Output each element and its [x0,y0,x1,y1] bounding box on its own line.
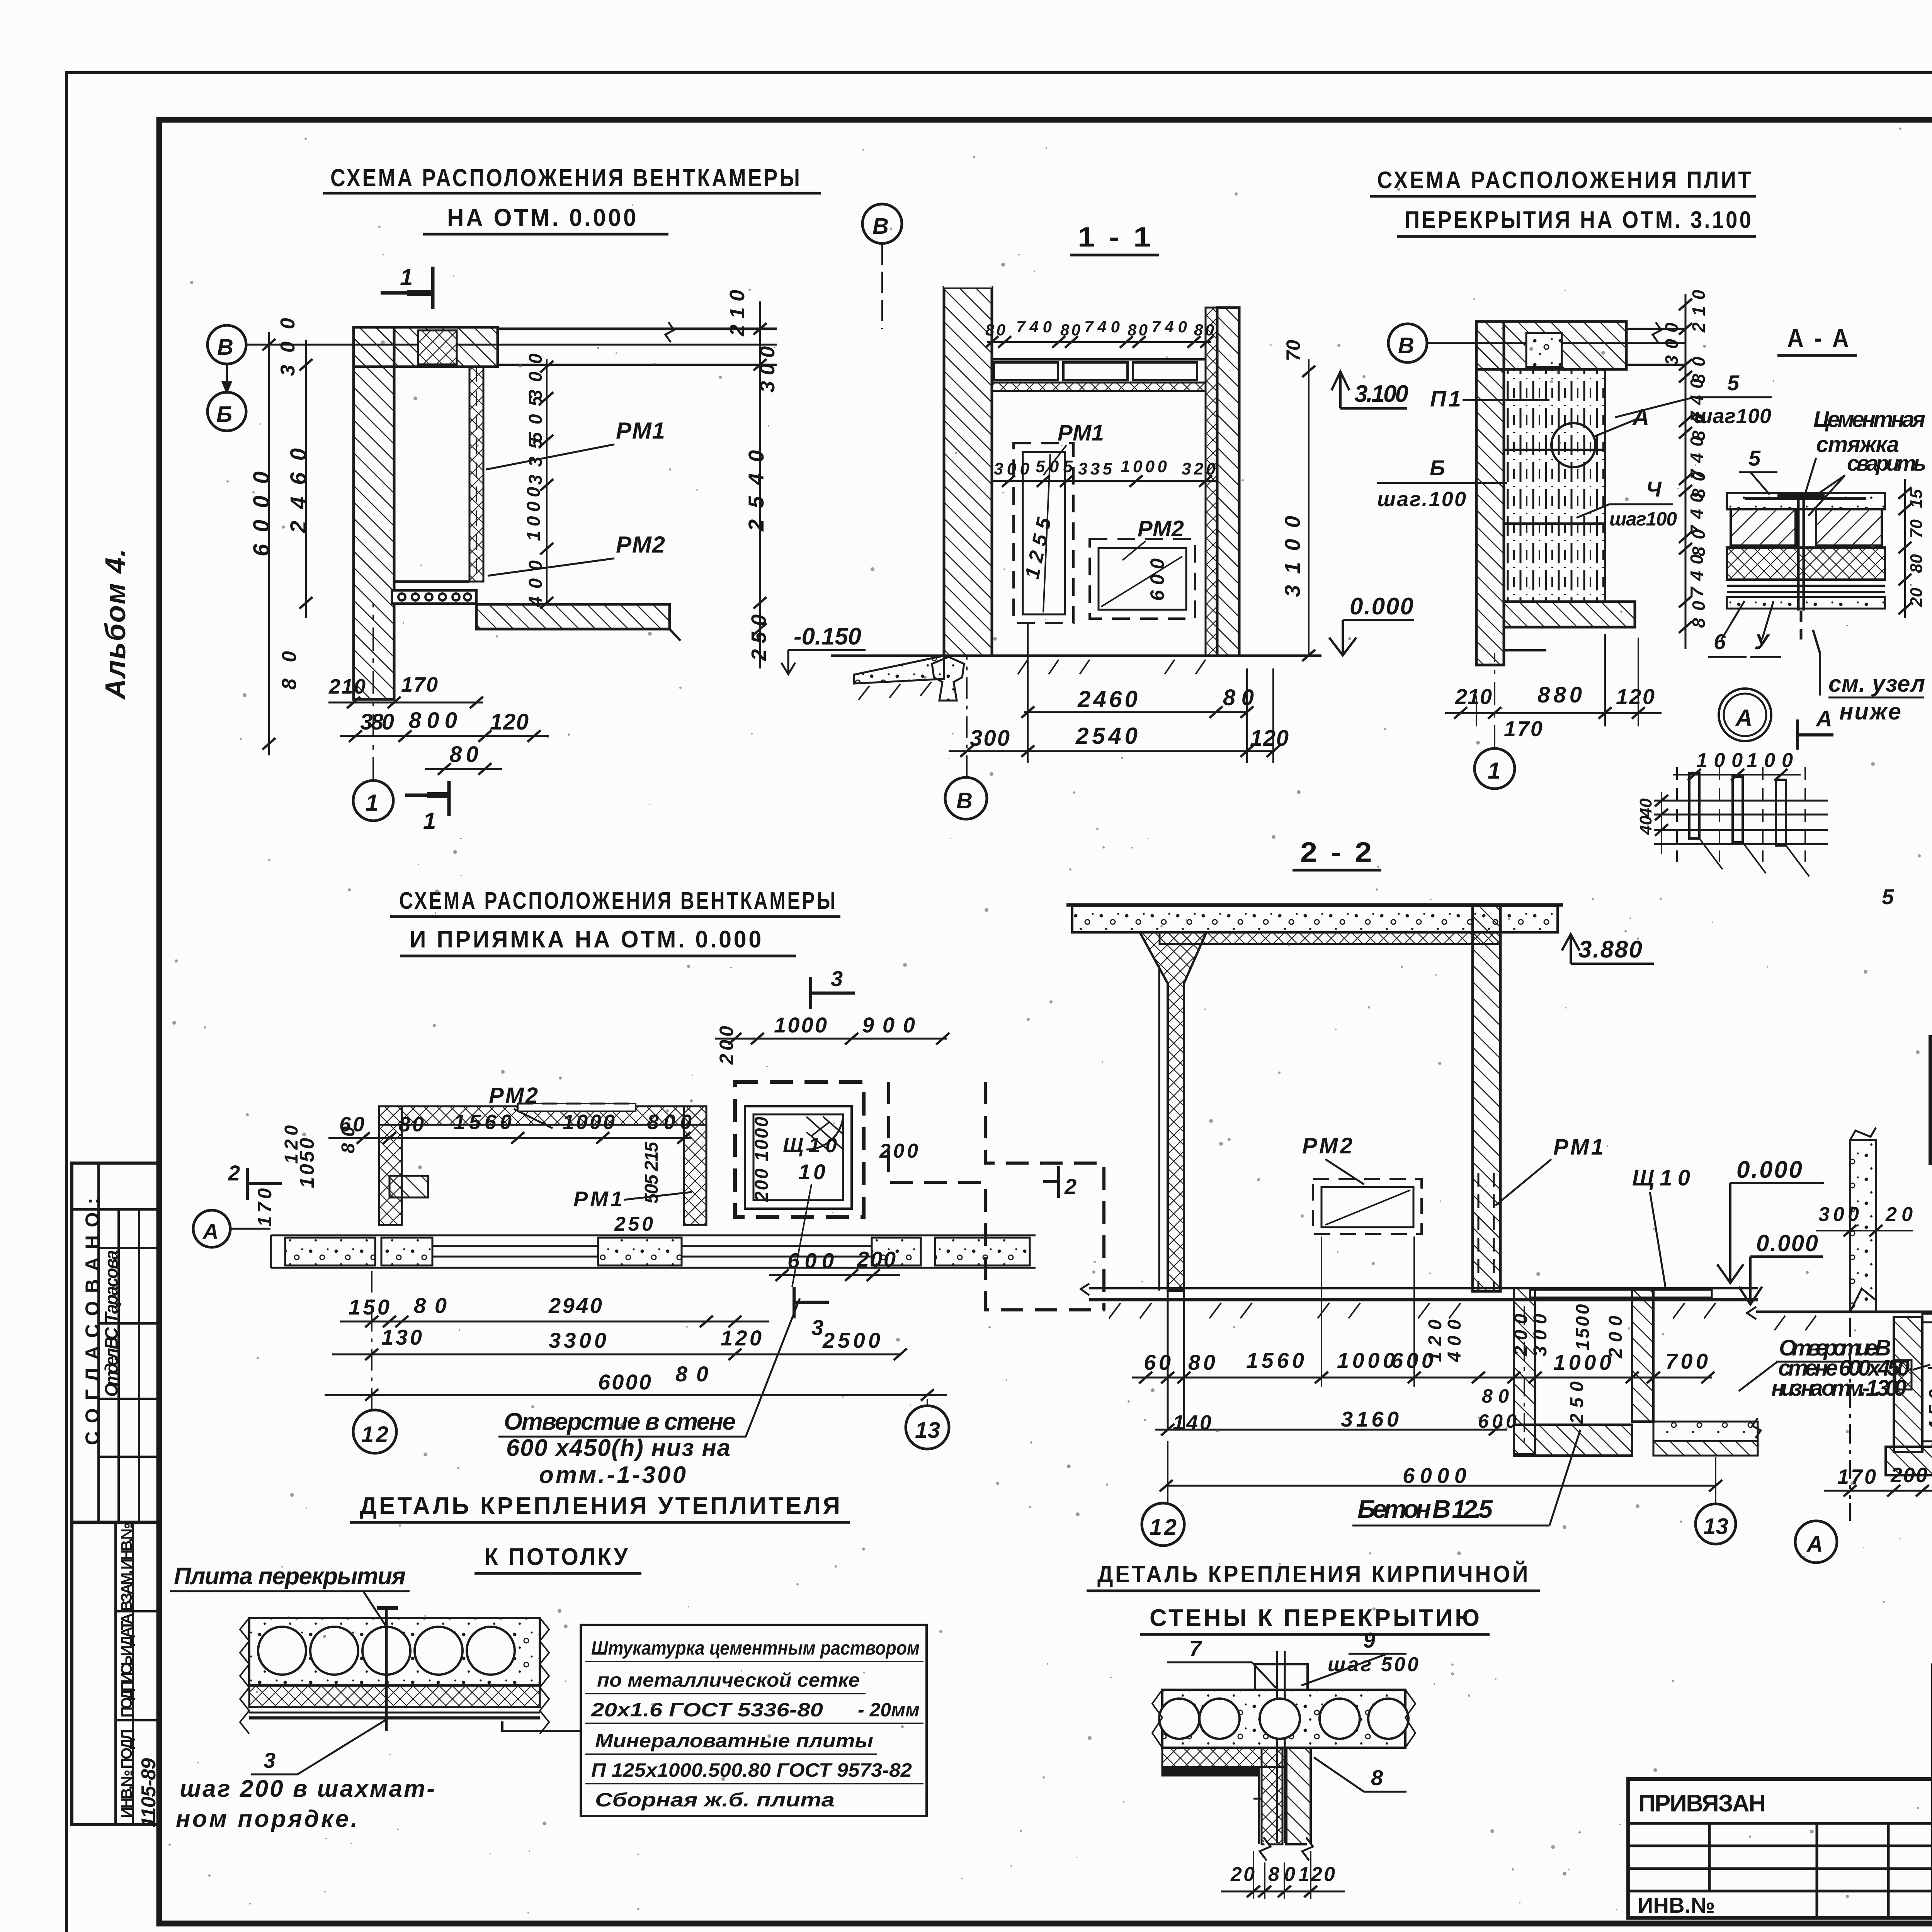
svg-text:ИНВ.№ ПОДЛ: ИНВ.№ ПОДЛ [118,1729,135,1818]
svg-text:А: А [1806,1532,1823,1557]
svg-text:А: А [1815,706,1832,731]
3-3 pos 11 mesh [1895,1360,1912,1389]
svg-text:600 х450(h) низ на: 600 х450(h) низ на [506,1435,730,1461]
svg-text:0.000: 0.000 [1736,1156,1802,1183]
svg-text:400: 400 [1444,1320,1465,1362]
plan3 right dim chain [1679,294,1692,649]
heading: schema ventkamery otm 0.000 [323,164,821,234]
svg-text:20: 20 [1907,588,1926,607]
svg-text:740: 740 [1151,318,1187,336]
svg-text:210: 210 [1455,684,1492,709]
plan2 foundation strip [271,1235,1036,1268]
svg-text:2: 2 [1064,1174,1077,1199]
plan3 top wall band [1476,321,1626,369]
svg-text:300: 300 [1662,323,1682,365]
svg-text:1 - 1: 1 - 1 [1078,222,1153,253]
svg-text:отм.-1-300: отм.-1-300 [539,1462,686,1488]
svg-text:15: 15 [1907,489,1926,508]
1-1 ground and floor [831,656,1321,701]
svg-text:низ на отм.-1.300: низ на отм.-1.300 [1771,1376,1906,1401]
3-3 ground and pit [1747,1307,1932,1475]
svg-text:шаг100: шаг100 [1609,508,1677,530]
svg-text:300: 300 [277,318,299,376]
svg-text:210: 210 [328,675,366,698]
2-2 floor lines [1081,1284,1758,1318]
heading: 1-1 [1070,222,1159,255]
plan2 top dims 200 1000 900 [715,1033,949,1044]
svg-text:70: 70 [1907,519,1926,538]
svg-text:100: 100 [1696,749,1743,772]
svg-text:300: 300 [756,346,779,393]
svg-text:0.000: 0.000 [1350,593,1413,620]
svg-text:Б: Б [1430,456,1445,480]
svg-text:380: 380 [360,709,394,735]
svg-text:700: 700 [1665,1349,1708,1373]
svg-text:ПОДПИСЬ И ДАТА: ПОДПИСЬ И ДАТА [118,1613,135,1718]
svg-text:ниже: ниже [1839,699,1901,724]
plan3 axis circle B [1388,324,1427,362]
section mark 1 top [381,267,433,309]
svg-text:ВЗАМ. ИНВ.№: ВЗАМ. ИНВ.№ [118,1522,135,1611]
svg-text:Плита перекрытия: Плита перекрытия [174,1563,406,1590]
title block left sub-block (privyazan) [1628,1779,1932,1918]
svg-text:-0.150: -0.150 [794,623,861,650]
svg-text:1105-89: 1105-89 [138,1758,160,1828]
svg-text:120: 120 [281,1125,302,1164]
node A drawing rails [1654,801,1828,844]
svg-text:40: 40 [1636,816,1655,835]
plan3 bottom band [1504,602,1635,627]
plan1 room floor line [392,582,476,604]
svg-text:1: 1 [1488,758,1500,784]
svg-text:ДЕТАЛЬ КРЕПЛЕНИЯ КИРПИЧНОЙ: ДЕТАЛЬ КРЕПЛЕНИЯ КИРПИЧНОЙ [1097,1561,1530,1588]
svg-text:шаг 500: шаг 500 [1328,1653,1418,1676]
svg-text:400: 400 [526,560,546,607]
svg-text:Цементная: Цементная [1813,407,1925,432]
potolok slab [240,1607,549,1734]
A-A right dim chain [1898,479,1912,618]
plan1 right dim chain [753,301,767,668]
1-1 mid dims 300 505 335 1000 320 [992,475,1217,487]
node A bars [1677,767,1809,876]
svg-text:210: 210 [1689,290,1709,333]
svg-text:по металлической сетке: по металлической сетке [597,1669,860,1691]
svg-text:800: 800 [647,1111,692,1134]
svg-text:СХЕМА РАСПОЛОЖЕНИЯ ВЕНТКАМЕРЫ: СХЕМА РАСПОЛОЖЕНИЯ ВЕНТКАМЕРЫ [399,888,837,914]
svg-text:сварить: сварить [1847,451,1926,475]
svg-text:К ПОТОЛКУ: К ПОТОЛКУ [485,1544,630,1570]
svg-text:В: В [1398,333,1414,358]
svg-text:120: 120 [1616,684,1655,709]
svg-text:Альбом 4.: Альбом 4. [99,549,131,700]
plan1 top right axis circle B [862,204,902,243]
2-2 PM2 window frame [1313,1179,1422,1234]
svg-text:740: 740 [1687,493,1707,535]
svg-text:А: А [1632,404,1649,430]
svg-text:13: 13 [1703,1514,1728,1539]
svg-text:Сборная ж.б. плита: Сборная ж.б. плита [595,1789,835,1811]
3-3 column [1850,1128,1876,1312]
potolok text block [502,1625,927,1816]
plan1 inner dim chain rotated [524,354,546,607]
kirpich insulation and wall below [1162,1748,1313,1861]
svg-text:335: 335 [1078,459,1112,478]
svg-text:0.000: 0.000 [1756,1230,1818,1256]
svg-text:3: 3 [831,966,843,991]
svg-text:150: 150 [349,1295,389,1319]
A-A slab layers [1727,493,1885,609]
plan2 pit plan [735,1082,864,1217]
svg-text:200: 200 [1511,1314,1531,1357]
svg-text:шаг.100: шаг.100 [1377,488,1466,511]
svg-text:450: 450 [1925,1389,1932,1432]
svg-text:900: 900 [862,1013,915,1037]
svg-text:Бетон В 12.5: Бетон В 12.5 [1357,1495,1493,1523]
svg-text:РМ1: РМ1 [616,418,665,444]
2-2 pit walls [1514,1288,1761,1456]
heading: detal krepleniya kirpichnoy steny [1087,1561,1540,1634]
2-2 PM1 dashed in wall [1478,1173,1494,1291]
svg-text:ПРИВЯЗАН: ПРИВЯЗАН [1638,1790,1766,1817]
plan1 bottom dims 380 800 120 / 80 [340,730,549,775]
svg-text:3.880: 3.880 [1578,936,1642,963]
svg-text:2: 2 [228,1161,240,1185]
svg-text:ДЕТАЛЬ КРЕПЛЕНИЯ УТЕПЛИТЕЛЯ: ДЕТАЛЬ КРЕПЛЕНИЯ УТЕПЛИТЕЛЯ [360,1493,842,1519]
svg-text:200: 200 [879,1140,918,1162]
svg-text:РМ1: РМ1 [1058,420,1104,446]
left margin rotated texts [82,1198,160,1828]
svg-text:13: 13 [915,1418,940,1443]
1-1 bottom axis circle B [945,777,987,819]
plan2 section mark 3 bottom [794,1287,829,1318]
svg-text:300: 300 [526,354,546,400]
svg-text:3: 3 [264,1748,276,1772]
svg-text:1: 1 [423,808,436,834]
svg-text:шаг 200 в шахмат-: шаг 200 в шахмат- [180,1776,435,1802]
plan1 bottom axis circle 1 [353,781,393,821]
plan3 bottom axis circle 1 [1475,748,1515,789]
plan2 dims row 60 80 1560 1000 800 [328,1132,692,1144]
svg-text:В: В [956,788,973,813]
svg-text:170: 170 [1837,1465,1876,1488]
plan1 top wall [354,322,777,367]
plan2 left marks [247,1168,282,1200]
kirpich anchor plate and pin [1255,1651,1308,1843]
svg-text:740: 740 [1687,554,1707,597]
svg-text:2 - 2: 2 - 2 [1300,837,1374,868]
svg-text:ном порядке.: ном порядке. [176,1806,357,1832]
svg-text:250: 250 [1567,1381,1587,1424]
svg-text:5: 5 [1748,446,1761,470]
svg-text:120: 120 [1425,1320,1446,1362]
svg-text:120: 120 [1250,726,1289,751]
svg-text:300: 300 [970,726,1010,751]
svg-text:250: 250 [747,614,770,661]
svg-text:У: У [1754,629,1770,654]
2-2 left column with capital [1140,932,1206,1430]
svg-text:7: 7 [1189,1636,1202,1660]
svg-text:- 20мм: - 20мм [858,1699,920,1721]
1-1 PM1 frame [1014,443,1073,623]
svg-text:А - А: А - А [1787,323,1851,353]
plan2 bottom dims [325,1269,947,1401]
plan2 T2 mark right [1043,1166,1059,1198]
svg-text:Минераловатные плиты: Минераловатные плиты [595,1730,873,1752]
svg-text:СХЕМА РАСПОЛОЖЕНИЯ ПЛИТ: СХЕМА РАСПОЛОЖЕНИЯ ПЛИТ [1377,167,1753,194]
plan1 inner wall [469,367,483,582]
svg-text:200: 200 [1605,1316,1626,1359]
kirpich slab [1152,1690,1415,1748]
svg-text:Отдел ВС: Отдел ВС [101,1327,121,1397]
2-2 dim chain y3565 [1132,1236,1714,1387]
svg-text:А: А [202,1219,218,1243]
svg-text:300: 300 [994,459,1030,478]
svg-text:см. узел: см. узел [1828,671,1925,697]
svg-text:Щ10: Щ10 [1632,1165,1690,1190]
plan3 bottom dims [1445,634,1662,726]
svg-text:505 215: 505 215 [641,1141,662,1204]
svg-text:1: 1 [400,264,413,290]
plan2 dashed contour right [889,1082,1105,1310]
svg-text:200: 200 [716,1026,737,1065]
2-2 ceiling slab [1066,905,1563,944]
svg-text:740: 740 [1016,318,1052,336]
heading: detal krepleniya uteplitelya k potolku [350,1493,850,1573]
svg-text:Б: Б [216,402,232,427]
svg-text:300: 300 [1818,1203,1859,1226]
svg-text:800: 800 [409,708,457,733]
2-2 right wall [1473,905,1500,1291]
svg-text:ПЕРЕКРЫТИЯ НА ОТМ. 3.100: ПЕРЕКРЫТИЯ НА ОТМ. 3.100 [1405,207,1753,233]
svg-text:В: В [872,214,889,239]
svg-text:1: 1 [366,790,378,816]
svg-text:Тарасова: Тарасова [101,1250,121,1323]
svg-text:80: 80 [1907,554,1926,573]
plan1 lower floor strip -0.150 [476,604,680,641]
svg-text:740: 740 [1084,318,1120,336]
svg-text:320: 320 [1182,459,1216,478]
2-2 lower dim lines [1155,1424,1722,1492]
heading: 2-2 [1293,837,1381,870]
plan3 node circle A [1551,423,1595,467]
vedomost detaley table [1930,1037,1932,1163]
plan3 left wall [1476,321,1504,665]
1-1 ceiling plates [992,359,1206,391]
svg-text:20х1.6 ГОСТ 5336-80: 20х1.6 ГОСТ 5336-80 [591,1699,823,1721]
svg-text:880: 880 [1537,682,1582,707]
svg-text:П 125х1000.500.80 ГОСТ 9573-82: П 125х1000.500.80 ГОСТ 9573-82 [591,1759,912,1781]
svg-text:600: 600 [787,1248,834,1273]
plan3 plates field [1504,369,1626,602]
svg-text:РМ2: РМ2 [616,532,665,558]
plan2 section mark 3 top [811,977,855,1009]
1-1 level 3.100 [1332,372,1407,408]
3-3 axis circle A [1795,1521,1837,1563]
svg-text:П1: П1 [1430,386,1461,412]
svg-text:200 1000: 200 1000 [752,1117,772,1202]
svg-text:5: 5 [1882,884,1894,909]
svg-text:170: 170 [254,1188,276,1227]
kirpich bottom dims 20 80 120 [1221,1851,1345,1899]
axis line B [246,344,777,346]
node A top dims 100 100 [1673,769,1801,781]
1-1 bottom dims [949,622,1280,763]
svg-text:Штукатурка цементным раствором: Штукатурка цементным раствором [591,1637,920,1659]
svg-text:140: 140 [1173,1411,1211,1434]
svg-text:600: 600 [1146,558,1168,601]
svg-text:120: 120 [721,1326,762,1350]
svg-text:СХЕМА РАСПОЛОЖЕНИЯ ВЕНТКАМЕРЫ: СХЕМА РАСПОЛОЖЕНИЯ ВЕНТКАМЕРЫ [330,164,802,192]
plan2 room walls [379,1104,706,1225]
svg-text:100: 100 [1747,749,1793,772]
svg-text:9: 9 [1363,1628,1375,1652]
svg-text:505: 505 [1036,457,1073,476]
node A section mark right [1798,719,1833,750]
2-2 axis circles 12 13 [1142,1503,1184,1546]
svg-text:В: В [217,335,233,360]
plan1 left wall [354,327,394,699]
svg-text:40: 40 [1636,798,1655,818]
left margin stamp table [72,1163,159,1825]
svg-text:130: 130 [381,1325,422,1349]
svg-text:250: 250 [614,1213,653,1235]
svg-text:3: 3 [811,1315,823,1340]
svg-text:СТЕНЫ К ПЕРЕКРЫТИЮ: СТЕНЫ К ПЕРЕКРЫТИЮ [1150,1605,1482,1631]
svg-text:5: 5 [1727,371,1740,395]
svg-text:НА ОТМ. 0.000: НА ОТМ. 0.000 [447,204,638,231]
A-A center anchor [1777,495,1825,639]
svg-text:300: 300 [1530,1314,1551,1356]
svg-text:И ПРИЯМКА НА ОТМ. 0.000: И ПРИЯМКА НА ОТМ. 0.000 [410,926,764,953]
1-1 left wall [944,287,992,656]
svg-text:8: 8 [1371,1765,1383,1790]
1-1 right wall [1217,308,1239,656]
node A left dims 40 40 [1655,792,1668,854]
svg-text:120: 120 [1298,1863,1335,1886]
svg-text:А: А [1735,705,1752,731]
svg-text:РМ2: РМ2 [1302,1133,1352,1158]
svg-text:200: 200 [857,1247,896,1271]
axis circle B [207,325,246,431]
svg-text:Щ10: Щ10 [783,1134,837,1157]
svg-text:Ч: Ч [1646,477,1662,501]
svg-text:РМ2: РМ2 [1138,516,1184,541]
heading: schema ventkamery i priyamka [390,888,840,956]
svg-text:120: 120 [490,709,529,735]
svg-text:170: 170 [401,673,438,696]
heading: A-A [1777,323,1857,355]
svg-text:200: 200 [1890,1464,1927,1487]
plan1 dim верт 6000/2460 [262,332,313,755]
section mark 1 bottom [405,781,449,816]
svg-text:РМ1: РМ1 [1553,1134,1604,1160]
3-3 bottom dims [1824,1318,1932,1499]
svg-text:170: 170 [1504,716,1543,741]
node A marker circle [1719,689,1771,741]
svg-text:3.100: 3.100 [1354,381,1408,407]
1-1 top dim row 80 740 ... [985,336,1213,348]
svg-text:210: 210 [726,290,749,337]
plan2 axis circles 12 13 [353,1410,396,1453]
1-1 PM2 frame [1090,539,1195,619]
svg-text:Отверстие в стене: Отверстие в стене [504,1408,736,1435]
svg-text:РМ1: РМ1 [573,1187,622,1211]
svg-text:ИНВ.№: ИНВ.№ [1638,1893,1715,1917]
svg-text:70: 70 [1282,340,1304,361]
heading: schema plit perekrytiya [1370,167,1756,236]
